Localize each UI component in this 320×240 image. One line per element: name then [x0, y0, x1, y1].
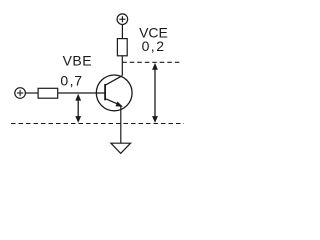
wire RB to base	[58, 92, 105, 94]
resistor RB	[38, 88, 58, 98]
svg-text:,: ,	[151, 38, 155, 54]
wire left terminal to RB	[25, 92, 38, 94]
svg-text:0: 0	[60, 72, 68, 88]
emitter wire	[120, 106, 122, 144]
wire RC to collector	[121, 56, 123, 76]
svg-text:VBE: VBE	[63, 52, 93, 68]
svg-text:,: ,	[70, 72, 74, 88]
node collector dashed level line	[122, 61, 180, 63]
transistor Q1	[96, 75, 132, 111]
emitter dashed level line	[11, 123, 184, 125]
supply terminal top (+)	[117, 14, 128, 25]
wire top terminal to RC	[121, 24, 123, 38]
VCE dimension arrow	[152, 63, 158, 123]
VBE dimension arrow	[75, 94, 81, 123]
resistor RC	[117, 39, 127, 56]
supply terminal left (+)	[15, 88, 26, 99]
ground	[111, 143, 131, 153]
svg-text:7: 7	[74, 72, 82, 88]
svg-text:2: 2	[156, 38, 164, 54]
svg-text:0: 0	[142, 38, 150, 54]
